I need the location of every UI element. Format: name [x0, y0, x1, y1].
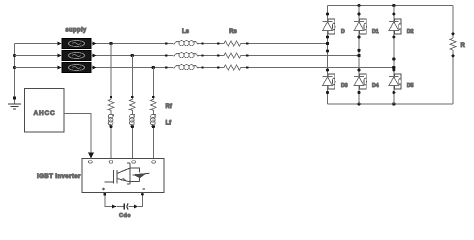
label R: [461, 43, 466, 49]
inductor Ls phase C: [165, 65, 204, 70]
port arrow into supply A: [58, 42, 62, 46]
node leg1 mid: [326, 49, 329, 52]
ground: [8, 96, 21, 109]
wire bridge leg 2: [358, 6, 360, 105]
subsystem block IGBT Inverter: [82, 159, 164, 193]
node bottom bus leg2: [357, 102, 360, 105]
port arrow out of supply B: [93, 54, 97, 58]
diode D2: [389, 13, 401, 39]
node bottom bus leg3: [392, 102, 395, 105]
node bus/phase-b junction: [13, 54, 16, 57]
capacitor Cdc: [124, 203, 128, 209]
wire filter branch C vertical: [152, 68, 155, 159]
node branch tap phase B: [131, 54, 134, 57]
svg-text:D3: D3: [341, 83, 348, 89]
node phase C at leg 3: [392, 66, 395, 69]
wire phase A Ls to Rs: [204, 43, 219, 45]
node branch tap phase A: [109, 42, 112, 45]
wire filter branch B vertical: [131, 56, 134, 159]
diode D4: [354, 69, 366, 95]
node branch tap phase C: [152, 66, 155, 69]
wire bridge top bus: [328, 5, 454, 7]
wire inverter plus to Cdc: [103, 192, 111, 206]
inductor Lf branch B: [129, 114, 134, 125]
label D1: [372, 29, 379, 35]
label IGBT Inverter: [37, 173, 81, 180]
wire phase B Ls to Rs: [204, 55, 219, 57]
port arrow into Cdc left: [112, 205, 116, 209]
wire AHCC to gate port: [64, 114, 91, 153]
port arrow out of supply C: [93, 66, 97, 70]
wire load branch: [452, 6, 455, 105]
port arrow into Cdc right: [134, 205, 138, 209]
svg-text:D5: D5: [407, 83, 414, 89]
label Rf: [166, 104, 173, 110]
wire phase A supply to Ls: [91, 43, 166, 45]
wire left neutral bus: [14, 44, 16, 99]
label Rs: [229, 29, 237, 35]
label Cdc: [119, 213, 131, 219]
svg-text:IGBT Inverter: IGBT Inverter: [37, 173, 81, 180]
label supply: [65, 27, 86, 33]
resistor Rf branch A: [108, 99, 114, 110]
svg-text:D1: D1: [372, 29, 379, 35]
port arrow into supply B: [58, 54, 62, 58]
diode D3: [323, 69, 335, 95]
port arrow out of supply A: [93, 42, 97, 46]
node leg2 mid: [357, 49, 360, 52]
svg-text:R: R: [461, 43, 466, 49]
inductor Ls phase B: [165, 53, 204, 58]
wire bridge bottom bus: [328, 103, 454, 105]
port C oval: [152, 161, 156, 164]
resistor Rs phase B: [217, 53, 248, 58]
wire phase C supply to Ls: [91, 67, 166, 69]
svg-text:Lf: Lf: [166, 120, 173, 126]
IGBT with antiparallel diode icon: [105, 163, 150, 184]
wire bridge leg 3: [393, 6, 395, 105]
svg-text:AHCC: AHCC: [34, 110, 56, 117]
wire phase B left segment: [15, 55, 63, 57]
label D5: [407, 83, 414, 89]
port + mark: [102, 188, 105, 191]
diode D: [323, 13, 335, 39]
label Lf: [166, 120, 173, 126]
node top bus leg3: [392, 4, 395, 7]
wire phase C to bridge leg 3: [249, 67, 394, 69]
AC source supply phase A: [62, 39, 91, 49]
node leg3 mid: [392, 57, 395, 60]
resistor Rf branch C: [151, 99, 157, 110]
node phase A at leg 1: [326, 42, 329, 45]
label D: [341, 29, 345, 35]
resistor R load: [450, 38, 456, 50]
wire phase A to bridge leg 1: [249, 43, 328, 45]
svg-text:D: D: [341, 29, 345, 35]
node top bus leg2: [357, 4, 360, 7]
controller block AHCC: [25, 89, 65, 133]
svg-text:D2: D2: [407, 29, 414, 35]
wire bridge leg 1: [327, 6, 329, 105]
wire inverter minus to Cdc: [138, 192, 144, 206]
node phase B at leg 2: [357, 54, 360, 57]
label D2: [407, 29, 414, 35]
wire phase A left segment: [15, 43, 63, 45]
port - mark: [143, 188, 146, 190]
label Ls: [182, 29, 190, 35]
resistor Rs phase C: [217, 65, 248, 70]
svg-text:Ls: Ls: [182, 29, 190, 35]
port g oval: [88, 161, 92, 164]
svg-text:Cdc: Cdc: [119, 213, 131, 219]
wire phase C left segment: [15, 67, 63, 69]
resistor Rs phase A: [217, 41, 248, 46]
inductor Lf branch A: [108, 114, 113, 125]
arrowhead into gate port g: [88, 152, 94, 158]
wire phase C Ls to Rs: [204, 67, 219, 69]
svg-text:supply: supply: [65, 27, 86, 33]
diode D5: [389, 69, 401, 95]
inductor Ls phase A: [165, 41, 204, 46]
port A oval: [109, 161, 113, 164]
wire filter branch A vertical: [109, 44, 112, 159]
resistor Rf branch B: [130, 99, 136, 110]
node bus/phase-c junction: [13, 66, 16, 69]
wire phase B supply to Ls: [91, 55, 166, 57]
label D3: [341, 83, 348, 89]
svg-text:Rf: Rf: [166, 104, 173, 110]
label D4: [372, 83, 379, 89]
inductor Lf branch C: [150, 114, 155, 125]
diode D1: [354, 13, 366, 39]
wire arrow to left plate: [116, 206, 123, 208]
wire phase B to bridge leg 2: [249, 55, 359, 57]
svg-text:D4: D4: [372, 83, 379, 89]
wire right plate to arrow: [129, 206, 134, 208]
svg-text:Rs: Rs: [229, 29, 237, 35]
AC source supply phase C: [62, 63, 91, 73]
AC source supply phase B: [62, 51, 91, 61]
port B oval: [132, 161, 136, 164]
port arrow into supply C: [58, 66, 62, 70]
